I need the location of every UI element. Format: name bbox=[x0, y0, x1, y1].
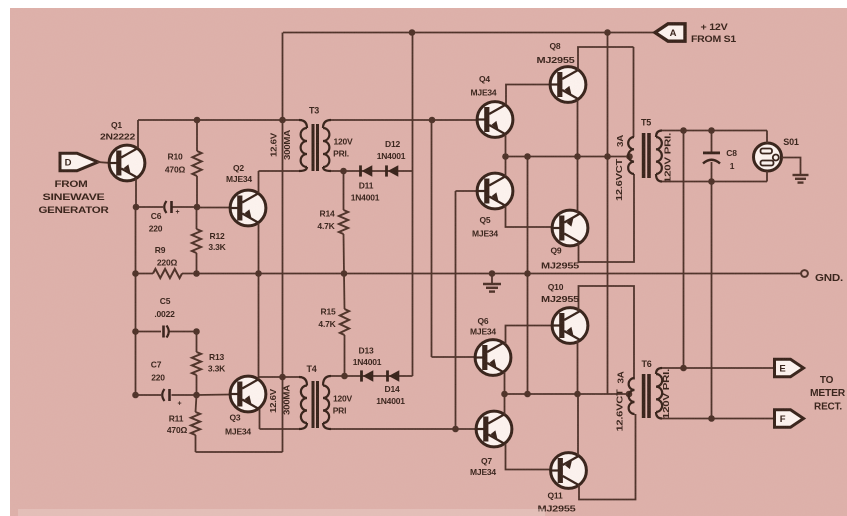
label Q11 bbox=[548, 491, 563, 501]
label GENERATOR bbox=[39, 205, 110, 215]
node T6 center tap bbox=[626, 391, 633, 398]
label MJE34 Q7 bbox=[470, 467, 496, 477]
transistor Q11 bbox=[551, 394, 636, 500]
node x683 top junction bbox=[680, 127, 687, 134]
label GND. bbox=[815, 273, 843, 284]
node Q1 emitter / C6 junction bbox=[133, 204, 140, 211]
resistor R12 bbox=[192, 207, 201, 274]
label PRI. T3 bbox=[333, 149, 349, 159]
wire T4 to Q7 base bbox=[331, 428, 476, 430]
wire Q3 emitter to T4 bbox=[260, 428, 303, 430]
node F line junction bbox=[708, 415, 715, 422]
label Q9 bbox=[551, 246, 562, 256]
label 4.7K R15 bbox=[318, 319, 336, 329]
wire R11 bottom rail bbox=[196, 377, 283, 452]
node C8 bottom junction bbox=[708, 178, 715, 185]
connector E bbox=[775, 359, 804, 376]
label 120V T4 bbox=[333, 394, 353, 404]
wire T5 top output bbox=[662, 130, 767, 132]
label 2N2222 bbox=[100, 132, 136, 142]
wire left column vertical bbox=[135, 207, 137, 395]
capacitor C5 bbox=[162, 326, 169, 338]
capacitor C6 bbox=[164, 201, 179, 216]
wire T3 to Q4 base bbox=[331, 119, 477, 121]
node C6 right junction bbox=[194, 204, 201, 211]
label 12.6VCT T6 bbox=[615, 388, 625, 431]
label 12.6V T4 bbox=[269, 388, 278, 413]
node GND junction R12 bbox=[193, 270, 200, 277]
node +12V rail junction x412 bbox=[409, 29, 416, 36]
diode D12 bbox=[385, 165, 398, 177]
label Q2 bbox=[233, 163, 244, 173]
label FROM bbox=[55, 179, 88, 189]
connector D (input) bbox=[60, 153, 98, 170]
label C5 bbox=[160, 296, 171, 306]
resistor R14 bbox=[339, 171, 348, 274]
node GND junction ground symbol bbox=[489, 270, 496, 277]
transistor Q7 bbox=[476, 394, 550, 470]
wire x412 vertical (+12V to diode lines) bbox=[412, 33, 414, 377]
label Q10 bbox=[548, 282, 564, 292]
label MJE34 Q4 bbox=[471, 88, 497, 98]
wire x527 vertical bbox=[527, 157, 529, 395]
resistor R13 bbox=[192, 332, 201, 396]
label SINEWAVE bbox=[43, 192, 105, 202]
label 1N4001 D13 bbox=[353, 357, 382, 367]
label Q3 bbox=[230, 413, 241, 423]
wire Q2 collector to T3 bbox=[259, 170, 303, 172]
node rail junction Q6/Q7 bbox=[501, 391, 508, 398]
label TO bbox=[820, 375, 834, 386]
label C8 bbox=[726, 148, 737, 158]
node T4 left top junction bbox=[279, 374, 286, 381]
wire C5 line bbox=[136, 331, 197, 333]
transformer T5 right winding bbox=[656, 131, 662, 182]
label Q7 bbox=[481, 456, 492, 466]
label 3A T6 bbox=[616, 371, 626, 383]
label 120V PRI T6 bbox=[661, 369, 671, 419]
transformer T6 core bbox=[642, 374, 651, 418]
capacitor C7 bbox=[162, 389, 181, 408]
node T3 left top junction bbox=[279, 117, 286, 124]
resistor R11 bbox=[191, 395, 200, 452]
label R9 bbox=[155, 245, 166, 255]
transistor Q9 bbox=[552, 157, 634, 263]
wire C6 line bbox=[136, 206, 197, 208]
transistor Q1 bbox=[109, 120, 145, 207]
node E line junction bbox=[680, 365, 687, 372]
node rail junction Q10 Q11 emitters bbox=[574, 391, 581, 398]
node GND rail left end bbox=[132, 270, 139, 277]
connector F bbox=[775, 410, 804, 427]
transistor Q4 bbox=[477, 85, 549, 157]
transistor Q5 bbox=[477, 157, 551, 228]
label FROM S1 bbox=[691, 34, 736, 44]
transformer T6 right winding bbox=[656, 368, 662, 419]
wire C8/F vertical bbox=[711, 182, 713, 419]
wire Q4 base to Q6 base bbox=[432, 120, 475, 357]
label 120V T3 bbox=[333, 137, 353, 147]
label RECT. bbox=[814, 402, 842, 413]
label R15 bbox=[321, 307, 336, 317]
label MJE34 Q2 bbox=[226, 174, 252, 184]
wire diode line bottom bbox=[331, 375, 413, 377]
label 220 C7 bbox=[151, 373, 165, 383]
node GND junction Q2 emitter bbox=[255, 270, 262, 277]
wire D to Q1 base bbox=[97, 161, 109, 164]
label Q6 bbox=[478, 316, 489, 326]
label D11 bbox=[359, 181, 374, 191]
label S01 bbox=[783, 137, 799, 147]
wire Q5 base vertical bbox=[456, 191, 477, 429]
ground (center) bbox=[483, 274, 501, 292]
label R14 bbox=[320, 209, 335, 219]
resistor R10 bbox=[192, 120, 201, 207]
resistor R9 bbox=[153, 269, 182, 278]
label 3A T5 bbox=[615, 135, 625, 147]
node GND junction x527 bbox=[524, 270, 531, 277]
node C5 right junction bbox=[193, 328, 200, 335]
label 12.6VCT T5 bbox=[614, 158, 624, 201]
label D12 bbox=[385, 139, 400, 149]
transistor Q10 bbox=[552, 286, 634, 394]
label 220 C6 bbox=[149, 224, 163, 234]
wire T5 center tap rail bbox=[506, 156, 633, 158]
wire T5 bottom output bbox=[662, 181, 767, 183]
terminal GND bbox=[801, 270, 808, 277]
wire T4 left top lead bbox=[259, 376, 303, 378]
label 300MA T4 bbox=[283, 384, 292, 415]
label MJ2955 Q11 bbox=[538, 504, 577, 514]
label T4 bbox=[306, 364, 316, 374]
label 120V PRI T5 bbox=[663, 133, 673, 183]
label 1N4001 D11 bbox=[351, 193, 380, 203]
transformer T3 right winding bbox=[323, 120, 331, 171]
label 300MA T3 bbox=[283, 129, 292, 160]
wire T6 center tap rail bbox=[505, 393, 633, 395]
node T5 center tap bbox=[626, 153, 633, 160]
label PRI T4 bbox=[333, 406, 347, 416]
wire T6 top output to E bbox=[662, 367, 775, 369]
wire T6 bottom output to F bbox=[662, 418, 775, 420]
wire SO1 to ground bbox=[782, 158, 801, 175]
transformer T5 core bbox=[642, 133, 651, 178]
wire diode line top bbox=[331, 170, 413, 172]
wire GND rail bbox=[136, 273, 802, 275]
label 12.6V T3 bbox=[270, 132, 279, 157]
transistor Q6 bbox=[475, 326, 551, 395]
node rail junction x527 bbox=[524, 153, 531, 160]
label D14 bbox=[385, 384, 400, 394]
label R13 bbox=[209, 352, 224, 362]
label MJE34 Q3 bbox=[225, 427, 251, 437]
label MJE34 Q5 bbox=[472, 229, 498, 239]
node Q5 base junction bbox=[452, 426, 459, 433]
label C7 bbox=[151, 360, 162, 370]
label R10 bbox=[168, 152, 183, 162]
label 3.3K R12 bbox=[208, 242, 226, 252]
label 220ohm R9 bbox=[157, 258, 178, 268]
label Q8 bbox=[550, 41, 561, 51]
capacitor C8 bbox=[703, 131, 720, 182]
label D13 bbox=[359, 346, 374, 356]
transformer T4 core bbox=[312, 381, 320, 428]
wire Q2 base bbox=[197, 207, 230, 209]
label Q5 bbox=[480, 215, 491, 225]
label 3.3K R13 bbox=[208, 364, 226, 374]
label MJ2955 Q8 bbox=[537, 55, 576, 65]
label T5 bbox=[641, 118, 651, 128]
transformer T5 left winding bbox=[628, 137, 634, 174]
wire Q8 collector to T5 bbox=[633, 47, 635, 137]
label 1N4001 D14 bbox=[376, 396, 405, 406]
label Q4 bbox=[479, 74, 490, 84]
light band at bottom of scanned page bbox=[18, 509, 545, 516]
node C8 top junction bbox=[708, 127, 715, 134]
label T3 bbox=[309, 106, 319, 116]
label T6 bbox=[641, 359, 651, 369]
wire +12V rail bbox=[283, 32, 655, 34]
resistor R15 bbox=[340, 274, 349, 377]
node Q4 base junction bbox=[429, 117, 436, 124]
transformer T3 core bbox=[312, 124, 320, 171]
transformer T3 left winding bbox=[299, 120, 307, 171]
node rail junction x527 bottom bbox=[524, 391, 531, 398]
node C5 left junction bbox=[132, 328, 139, 335]
diode D11 bbox=[359, 165, 372, 177]
label 1 C8 bbox=[730, 161, 735, 171]
label R12 bbox=[210, 231, 225, 241]
wire x683 vertical (to T6 output) bbox=[683, 131, 685, 369]
label MJ2955 Q9 bbox=[541, 261, 580, 271]
node R14 top junction bbox=[340, 168, 347, 175]
transistor Q3 bbox=[230, 274, 266, 430]
label MJ2955 Q10 bbox=[541, 294, 580, 304]
wire x282 vertical (+12V rail to T4 left top) bbox=[282, 33, 284, 378]
transistor Q2 bbox=[230, 171, 266, 274]
node C7 left junction bbox=[132, 392, 139, 399]
socket SO1 bbox=[754, 131, 782, 182]
label Q1 bbox=[111, 120, 122, 130]
connector A (+12V from S1) bbox=[655, 24, 685, 41]
node rail junction Q4 emitter bbox=[502, 153, 509, 160]
label .0022 bbox=[154, 309, 175, 319]
transformer T6 left winding bbox=[629, 378, 635, 414]
transistor Q8 bbox=[550, 47, 633, 157]
transformer T4 left winding bbox=[299, 377, 307, 429]
transformer T4 right winding bbox=[323, 376, 331, 429]
node GND junction R14 R15 bbox=[341, 270, 348, 277]
diode D14 bbox=[386, 370, 399, 382]
node rail junction +12V vertical bbox=[604, 153, 611, 160]
label MJE34 Q6 bbox=[470, 327, 496, 337]
label 470ohm R11 bbox=[167, 425, 188, 435]
wire +12V vertical to T6 bbox=[607, 33, 609, 395]
node C7 right junction bbox=[193, 392, 200, 399]
node rail junction Q8 Q9 emitters bbox=[574, 153, 581, 160]
label METER bbox=[810, 388, 846, 399]
diode D13 bbox=[360, 370, 373, 382]
node R15 bottom junction bbox=[341, 373, 348, 380]
label C6 bbox=[151, 211, 162, 221]
label 1N4001 D12 bbox=[377, 151, 406, 161]
label R11 bbox=[169, 414, 184, 424]
ground (SO1) bbox=[793, 175, 809, 183]
label +12V bbox=[701, 22, 728, 32]
node R10 top junction bbox=[194, 117, 201, 124]
wire C7 line bbox=[136, 394, 231, 397]
wire Q1 collector rail y120 bbox=[138, 119, 302, 121]
node +12V rail junction x607 bbox=[604, 29, 611, 36]
label 4.7K R14 bbox=[317, 221, 335, 231]
label 470ohm R10 bbox=[165, 165, 186, 175]
